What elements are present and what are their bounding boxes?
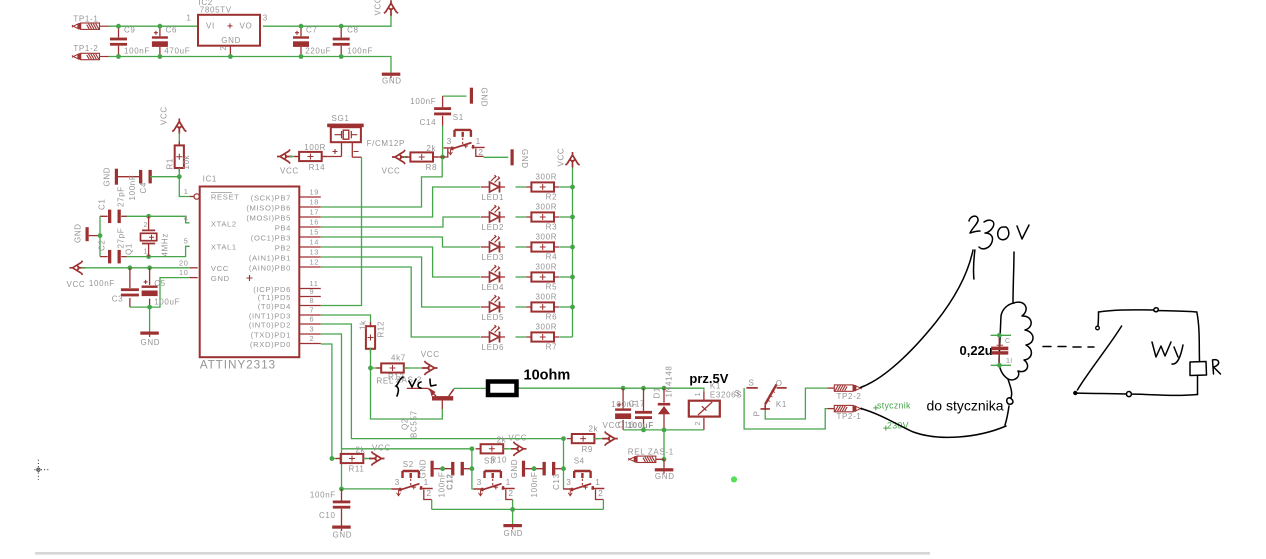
- IC1 pin20 stub: [190, 267, 198, 269]
- svg-text:GND: GND: [382, 77, 402, 86]
- resistor R3: [526, 212, 559, 221]
- net PB3 to LED3: [321, 237, 481, 247]
- handwritten top-left terminal: [1096, 326, 1100, 330]
- svg-text:100nF: 100nF: [124, 47, 150, 56]
- svg-text:C12: C12: [446, 473, 455, 490]
- svg-text:100nF: 100nF: [530, 472, 539, 498]
- TP2-1 pin stub: [827, 408, 834, 410]
- IC1 pin 3 stub: [300, 333, 321, 335]
- voltage regulator IC2 7805TV body: [198, 15, 260, 46]
- svg-text:O: O: [776, 379, 783, 388]
- svg-text:2k: 2k: [356, 445, 366, 454]
- relay bottom rail: [623, 429, 704, 431]
- svg-text:6: 6: [310, 314, 315, 323]
- wire GND to C12: [434, 468, 453, 470]
- capacitor C5 polarized: [142, 280, 158, 296]
- svg-text:GND: GND: [510, 459, 519, 479]
- IC1 pin 17 stub: [300, 216, 321, 218]
- TP1-1 pin stub: [100, 25, 109, 27]
- handwritten left feed line: [973, 250, 974, 279]
- svg-text:10ohm: 10ohm: [524, 368, 571, 384]
- left vertical C1-C2: [99, 216, 101, 256]
- handwritten 230V digit 2: [969, 216, 980, 233]
- svg-text:2k: 2k: [497, 436, 507, 445]
- svg-text:5: 5: [184, 237, 189, 246]
- svg-text:C: C: [1005, 338, 1011, 345]
- svg-text:Q2: Q2: [401, 418, 410, 430]
- junction bottom rail x=118.5: [116, 54, 121, 59]
- S4 pin2 to bottom rail: [602, 500, 604, 510]
- svg-text:R11: R11: [349, 465, 365, 474]
- junction LED bus y=307: [570, 305, 575, 310]
- svg-text:LED2: LED2: [482, 223, 505, 232]
- junction C10 S2 net: [339, 487, 344, 492]
- wire R12 to junction: [370, 348, 372, 368]
- VCC symbol right of R9: [602, 432, 618, 446]
- resistor R5: [526, 272, 559, 281]
- wire node to GND: [663, 459, 665, 468]
- svg-text:C7: C7: [306, 25, 318, 34]
- svg-text:LED4: LED4: [482, 283, 505, 292]
- svg-text:C14: C14: [420, 118, 437, 127]
- capacitor C3 stubs: [129, 268, 131, 307]
- resistor R9: [567, 434, 600, 443]
- wire R9 to VCC: [594, 438, 604, 440]
- svg-text:3: 3: [310, 324, 315, 333]
- junction LED bus y=217: [570, 215, 575, 220]
- svg-text:GND: GND: [74, 223, 83, 243]
- cursor crosshair: [35, 460, 49, 480]
- overline on RESET: [211, 192, 232, 194]
- lime green marker dot: [731, 476, 737, 482]
- R10 row wire: [342, 448, 472, 450]
- wire to S2 pin3: [342, 488, 392, 490]
- GND symbol below C10: [332, 526, 351, 531]
- svg-text:PB4: PB4: [275, 223, 291, 232]
- svg-text:3: 3: [395, 477, 400, 487]
- IC1 pin 19 stub: [300, 196, 321, 198]
- wire R8 to S1 node: [433, 156, 442, 158]
- handwritten transformer coil outline: [999, 302, 1033, 380]
- junction D1 top: [662, 386, 667, 391]
- svg-text:16: 16: [310, 217, 320, 226]
- junction crystal top: [146, 214, 151, 219]
- svg-text:(TXD)PD1: (TXD)PD1: [251, 330, 291, 339]
- svg-text:LED3: LED3: [482, 253, 505, 262]
- svg-text:C2: C2: [98, 239, 107, 251]
- handwritten switch lever right circuit: [1077, 326, 1121, 390]
- svg-text:100nF: 100nF: [89, 279, 115, 288]
- junction gnd net below C5: [147, 305, 152, 310]
- LED2: [481, 205, 505, 223]
- svg-text:300R: 300R: [535, 263, 557, 272]
- svg-text:GND: GND: [221, 36, 241, 45]
- net PB1 to LED5: [321, 257, 481, 307]
- svg-text:(MOSI)PB5: (MOSI)PB5: [246, 213, 291, 222]
- junction C5 top: [147, 265, 152, 270]
- junction top rail x=301: [299, 24, 304, 29]
- LED6: [481, 325, 505, 343]
- IC1 pin 6 stub: [300, 323, 321, 325]
- svg-text:R2: R2: [546, 193, 558, 202]
- wire R14 to SG1: [322, 156, 342, 158]
- wire R3 to VCC bus: [559, 216, 572, 218]
- wire LED5 to R6: [516, 306, 527, 308]
- IC2 GND pin stub: [229, 46, 231, 57]
- Q2 base stub wire: [407, 387, 429, 389]
- svg-text:1: 1: [595, 477, 600, 487]
- IC1 pin10 stub: [190, 277, 198, 279]
- origin cross of IC2: [228, 23, 233, 28]
- junction bottom rail GND: [510, 507, 515, 512]
- svg-text:prz.5V: prz.5V: [689, 371, 728, 386]
- svg-text:TP2-1: TP2-1: [837, 412, 862, 421]
- wire R10 to VCC: [503, 448, 513, 450]
- svg-text:S2: S2: [403, 460, 414, 469]
- transistor Q2 BC557: [429, 388, 454, 409]
- net PB4 to LED2: [321, 217, 481, 227]
- capacitor C1 pin stubs: [100, 215, 127, 217]
- svg-text:S1: S1: [453, 113, 464, 122]
- wire VCC to IC1 pin20: [82, 267, 190, 269]
- wire R6 to VCC bus: [559, 306, 572, 308]
- wire R1 to reset node: [178, 168, 180, 177]
- switch S1: [444, 130, 485, 155]
- svg-text:(AIN0)PB0: (AIN0)PB0: [249, 263, 291, 272]
- handwritten right feed line: [1013, 252, 1014, 303]
- svg-text:C5: C5: [154, 279, 166, 288]
- GND symbol power rail: [382, 73, 401, 78]
- junction REL ZAS-1: [662, 457, 667, 462]
- capacitor C9 pin stubs: [118, 26, 120, 56]
- svg-text:19: 19: [310, 187, 320, 196]
- junction bottom rail x=301: [299, 54, 304, 59]
- svg-text:2: 2: [219, 45, 228, 50]
- TP2-2 pin stub: [827, 387, 834, 389]
- wire SG1 minus to PD4 net: [352, 156, 361, 158]
- svg-text:stycznik: stycznik: [877, 401, 911, 411]
- handwritten Wy letter y: [1172, 345, 1183, 364]
- svg-text:100nF: 100nF: [347, 47, 373, 56]
- junction reset node: [177, 174, 182, 179]
- svg-text:20: 20: [179, 258, 189, 267]
- svg-text:2: 2: [310, 334, 315, 343]
- hand annotation 10ohm box: [488, 382, 517, 396]
- svg-text:220uF: 220uF: [305, 47, 331, 56]
- IC1 pin 15 stub: [300, 236, 321, 238]
- wire GND to crystal net: [89, 235, 100, 237]
- net R9 to S4 pin3: [563, 439, 565, 489]
- handwritten letter R: [1213, 360, 1221, 374]
- resistor R2: [526, 182, 559, 191]
- svg-text:100uF: 100uF: [154, 298, 180, 307]
- bottom rail of switches: [432, 508, 604, 510]
- switch S4: [563, 471, 604, 496]
- wire junction to R11: [332, 458, 341, 460]
- svg-text:15: 15: [310, 227, 320, 236]
- wire VCC to R14: [289, 156, 299, 158]
- svg-text:10: 10: [179, 268, 189, 277]
- resistor R12: [366, 322, 375, 353]
- svg-text:S3: S3: [484, 457, 495, 466]
- svg-text:4MHz: 4MHz: [161, 233, 170, 257]
- test pad TP2-2: [834, 385, 862, 391]
- resistor R11: [336, 454, 369, 463]
- wire C14 to S1 node: [442, 126, 444, 157]
- capacitor C16 polarized: [615, 403, 631, 419]
- VCC symbol left of R14: [277, 149, 293, 163]
- svg-text:GND: GND: [480, 88, 489, 108]
- wire to GND below C3 C5: [149, 307, 151, 331]
- svg-text:XTAL1: XTAL1: [211, 243, 237, 252]
- capacitor C2 pin stubs: [100, 256, 127, 258]
- svg-text:7: 7: [310, 305, 315, 314]
- handwritten bottom-left terminal dot: [1073, 391, 1077, 395]
- wire 10ohm to relay node: [518, 388, 704, 391]
- hand area cap bottom pin: [991, 364, 1011, 366]
- svg-text:GND: GND: [103, 167, 112, 187]
- capacitor C6 pin stubs: [159, 26, 161, 56]
- GND bar right of C14: [470, 88, 473, 104]
- wire rail to GND: [512, 509, 514, 524]
- svg-text:100R: 100R: [304, 143, 326, 152]
- svg-text:300R: 300R: [535, 203, 557, 212]
- svg-text:C10: C10: [319, 511, 336, 520]
- cross of label stycznik: [873, 405, 878, 410]
- svg-text:1: 1: [144, 248, 149, 255]
- net PB2 to LED4: [321, 247, 481, 277]
- wire C12 to S3 net: [462, 468, 472, 470]
- wire R4 to VCC bus: [559, 246, 572, 248]
- svg-text:(MISO)PB6: (MISO)PB6: [246, 203, 291, 212]
- GND bar right of S1: [511, 149, 514, 165]
- svg-text:7805TV: 7805TV: [200, 6, 232, 15]
- svg-text:300R: 300R: [535, 173, 557, 182]
- svg-text:1: 1: [184, 187, 189, 196]
- svg-text:14: 14: [310, 237, 320, 246]
- svg-text:470uF: 470uF: [164, 47, 190, 56]
- svg-text:TP2-2: TP2-2: [837, 392, 862, 401]
- net IC1 pin3 to R10 row: [321, 334, 342, 489]
- handwritten terminal stub: [1097, 312, 1100, 326]
- capacitor C8: [333, 38, 350, 46]
- resistor R13: [376, 363, 409, 372]
- svg-text:(T1)PD5: (T1)PD5: [258, 293, 291, 302]
- wire VCC to R1: [178, 133, 180, 146]
- junction LED bus y=277: [570, 275, 575, 280]
- capacitor C14 stubs: [442, 96, 444, 126]
- switch S2: [392, 471, 433, 496]
- junction cap bottom: [997, 363, 1002, 368]
- svg-text:F/CM12P: F/CM12P: [367, 139, 405, 148]
- svg-text:LED1: LED1: [482, 193, 505, 202]
- S4 pin2 drop: [596, 490, 604, 500]
- GND symbol below relay: [655, 468, 674, 473]
- resistor R6: [526, 302, 559, 311]
- svg-text:2k: 2k: [426, 144, 436, 153]
- capacitor C5 stubs: [149, 268, 151, 307]
- wire VCC to R8: [404, 156, 410, 158]
- svg-text:3: 3: [263, 14, 268, 23]
- capacitor C9: [110, 38, 127, 46]
- S1 pin2 drop: [476, 148, 484, 156]
- LED4: [481, 265, 505, 283]
- capacitor C8 pin stubs: [340, 26, 342, 56]
- svg-text:R12: R12: [377, 321, 386, 338]
- handwritten bottom wire: [1075, 392, 1198, 397]
- wire LED1 to R2: [516, 186, 527, 188]
- svg-text:C3: C3: [112, 295, 124, 304]
- capacitor C3: [121, 288, 139, 296]
- svg-text:VCC: VCC: [211, 264, 229, 273]
- svg-text:C1: C1: [98, 198, 107, 210]
- svg-text:(INT1)PD3: (INT1)PD3: [249, 311, 291, 320]
- svg-text:S: S: [735, 389, 741, 398]
- svg-text:PB2: PB2: [275, 243, 291, 252]
- svg-text:18: 18: [310, 197, 320, 206]
- wire R13 to VCC: [404, 367, 425, 369]
- dashed connection line: [1043, 346, 1094, 349]
- svg-text:GND: GND: [520, 149, 529, 169]
- svg-text:R14: R14: [309, 163, 326, 172]
- svg-text:R7: R7: [546, 343, 558, 352]
- wire GND to C13: [525, 468, 544, 470]
- capacitor C4: [139, 170, 152, 184]
- svg-text:VCC: VCC: [160, 106, 169, 125]
- svg-text:8: 8: [310, 296, 315, 305]
- capacitor C14: [434, 107, 451, 115]
- wire C2 to crystal bottom: [126, 246, 190, 256]
- junction S1 node: [440, 155, 445, 160]
- svg-text:GND: GND: [419, 459, 428, 479]
- svg-text:VO: VO: [240, 22, 253, 31]
- resistor R4: [526, 242, 559, 251]
- wire R11 to VCC: [363, 458, 371, 460]
- svg-text:S: S: [749, 378, 755, 387]
- IC1 pin 11 stub: [300, 288, 321, 290]
- switch S3: [474, 471, 515, 496]
- svg-text:GND: GND: [504, 529, 524, 538]
- svg-text:GND: GND: [333, 531, 353, 540]
- VCC symbol top right: [384, 0, 398, 16]
- junction bottom C16: [641, 428, 646, 433]
- VCC symbol left of IC1: [70, 261, 86, 275]
- test pad TP1-1: [72, 23, 100, 29]
- svg-text:VI: VI: [206, 22, 215, 31]
- junction top rail x=159.9: [158, 24, 163, 29]
- IC1 pin 18 stub: [300, 206, 321, 208]
- svg-text:C4: C4: [139, 182, 148, 194]
- handwritten top wire: [1099, 308, 1198, 312]
- hand area cap top pin: [991, 334, 1011, 336]
- svg-text:D1: D1: [653, 387, 662, 399]
- resistor R14: [294, 152, 327, 161]
- GND bar left of crystal: [86, 227, 89, 241]
- svg-text:K1: K1: [776, 400, 787, 409]
- svg-text:2: 2: [598, 488, 603, 498]
- svg-text:TP1-2: TP1-2: [73, 44, 98, 53]
- junction R12 R13: [368, 366, 373, 371]
- svg-text:R8: R8: [426, 163, 438, 172]
- junction cap top: [997, 333, 1002, 338]
- wire reset node to IC1 pin1: [179, 177, 189, 197]
- junction LED bus y=187: [570, 185, 575, 190]
- junction crystal gnd: [98, 233, 103, 238]
- wire S1 pin2 to GND: [484, 156, 509, 158]
- test pad TP1-2: [72, 53, 100, 59]
- LED5: [481, 295, 505, 313]
- handwritten curve TP2-1 to coil bottom: [861, 409, 1006, 438]
- svg-text:R1: R1: [166, 158, 175, 170]
- window bottom divider line: [35, 552, 930, 555]
- svg-text:3: 3: [447, 136, 452, 146]
- svg-text:C17: C17: [629, 400, 646, 409]
- IC1 pin 2 stub: [300, 343, 321, 345]
- svg-text:2: 2: [144, 222, 149, 229]
- wire C13 to S4 net: [554, 468, 564, 470]
- net PB0 to LED6: [321, 267, 481, 337]
- IC1 pin 9 stub: [300, 296, 321, 298]
- svg-text:VCC: VCC: [374, 0, 383, 16]
- relay contact K1: [746, 384, 786, 410]
- svg-text:VCC: VCC: [67, 280, 86, 289]
- svg-text:2k: 2k: [589, 425, 599, 434]
- wire LED6 to R7: [516, 336, 527, 338]
- REL ZAS-1 stub: [656, 458, 664, 460]
- junction R10 left: [470, 446, 475, 451]
- svg-text:1I: 1I: [1006, 358, 1012, 365]
- svg-text:GND: GND: [655, 472, 675, 481]
- handwritten right wire down: [1197, 313, 1200, 362]
- svg-text:GND: GND: [141, 338, 161, 347]
- capacitor 0,22u plates: [991, 345, 1008, 354]
- svg-text:(RXD)PD0: (RXD)PD0: [250, 340, 291, 349]
- cross of label 230V: [883, 426, 888, 431]
- svg-text:VCC: VCC: [280, 167, 299, 176]
- handwritten curve TP2-2 to 230V: [861, 250, 974, 388]
- microcontroller IC1 ATTINY2313 body: [200, 187, 300, 358]
- handwritten 230V digit 3: [979, 220, 994, 249]
- capacitor C6 polarized: [152, 31, 168, 47]
- svg-text:2: 2: [426, 488, 431, 498]
- svg-text:100nF: 100nF: [410, 97, 436, 106]
- net SG1 to IC1 pin8: [321, 157, 362, 305]
- svg-text:1: 1: [186, 14, 191, 23]
- power rail top wire: [109, 25, 198, 27]
- wire C14 top to GND: [443, 95, 467, 97]
- LED1: [481, 175, 505, 193]
- wire LED4 to R5: [516, 276, 527, 278]
- svg-text:(SCK)PB7: (SCK)PB7: [251, 193, 291, 202]
- capacitor C10: [333, 501, 351, 509]
- svg-text:13: 13: [310, 247, 320, 256]
- svg-text:LED6: LED6: [482, 343, 505, 352]
- svg-text:TP1-1: TP1-1: [73, 15, 98, 24]
- IC1 pin 8 stub: [300, 305, 321, 307]
- diode D1 stubs: [663, 388, 665, 430]
- handwritten coil bottom tail: [1005, 379, 1013, 425]
- wire C1 to crystal top: [126, 216, 190, 223]
- S1 pin3 hook to node: [443, 148, 448, 157]
- svg-text:do stycznika: do stycznika: [927, 398, 1004, 414]
- IC1 pin 13 stub: [300, 256, 321, 258]
- capacitor C7 polarized: [293, 31, 309, 47]
- GND bar left of C4: [115, 169, 118, 185]
- junction on C13 left wire: [532, 466, 537, 471]
- handwritten wire below R: [1197, 376, 1199, 395]
- net IC1 pin7 to R12: [321, 315, 371, 327]
- capacitor C13: [543, 462, 556, 476]
